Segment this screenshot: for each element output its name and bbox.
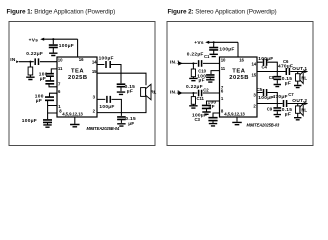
wire zobel 2 drop	[120, 113, 122, 116]
wire pin2 out2 row	[257, 103, 306, 105]
capacitor 100uF supply	[49, 45, 58, 47]
ground C11	[202, 112, 210, 114]
wire IN2 junction to resistor	[192, 93, 194, 97]
wire zobel 2 to ground	[120, 120, 122, 123]
wire pin16 supply drop	[77, 39, 79, 57]
wire pin3 stub to C5	[257, 93, 277, 104]
wire resistor2 to ground	[192, 104, 194, 105]
wire pin15 stub / out1 node	[97, 73, 146, 85]
capacitor C8 zobel	[273, 77, 281, 80]
capacitor C1 series	[199, 60, 202, 67]
wire pin11 stub to C10	[211, 71, 220, 74]
arrow OUT.1	[304, 70, 308, 73]
ground speaker2	[294, 118, 301, 120]
svg-text:15: 15	[252, 73, 257, 78]
arrow IN.2	[179, 92, 182, 95]
ground zobel2	[117, 124, 125, 126]
wire +Vs rail	[44, 38, 78, 40]
capacitor 100uF bootstrap2	[107, 96, 110, 103]
ground zobel1	[117, 92, 125, 94]
capacitor 100uF bootstrap1	[106, 61, 110, 68]
capacitor C4 bootstrap1	[264, 59, 267, 66]
svg-text:C6: C6	[283, 59, 289, 64]
speaker RL channel2	[296, 106, 300, 113]
node supply cap junction	[52, 38, 54, 40]
capacitor C3 100uF	[208, 118, 217, 121]
wire pin14 stub to C4	[257, 62, 277, 71]
capacitor C9 zobel	[273, 108, 281, 111]
svg-text:C1: C1	[204, 54, 210, 59]
resistor input2	[191, 97, 195, 105]
wire pin16 drop fig2	[237, 42, 239, 57]
wire pin1 stub to C11	[207, 101, 220, 105]
svg-text:M98TEA2025B-03: M98TEA2025B-03	[247, 122, 281, 127]
wire resistor to ground	[29, 75, 31, 77]
op-amp IC TEA2025B fig2 outline	[220, 57, 258, 117]
wire zobel 1 drop	[120, 73, 122, 83]
wire +Vs rail fig2	[209, 41, 238, 43]
svg-text:µF: µF	[128, 121, 134, 127]
capacitor 100uF pin7 chain	[45, 81, 54, 84]
arrow +Vs	[40, 38, 44, 41]
svg-text:C9: C9	[267, 107, 273, 112]
ground resistor1	[189, 78, 197, 80]
wire zobel C8 drop	[276, 72, 278, 77]
wire zobel 1 to ground	[120, 88, 122, 92]
speaker RL channel1	[296, 74, 300, 81]
svg-text:C2: C2	[203, 87, 209, 92]
svg-text:470µF: 470µF	[273, 94, 288, 100]
ground C3	[209, 124, 217, 126]
svg-text:RL: RL	[301, 75, 307, 80]
svg-text:µF: µF	[285, 81, 291, 87]
capacitor 100uF pin11	[46, 74, 54, 77]
svg-text:Figure 2: Stereo Application (: Figure 2: Stereo Application (Powerdip)	[168, 9, 277, 16]
svg-text:100µF: 100µF	[22, 118, 37, 124]
svg-text:C11: C11	[197, 96, 205, 101]
capacitor 0.22uF input series	[35, 58, 38, 65]
wire cap C2 to cap C3	[50, 77, 52, 80]
wire cap C3 to pin7 stub	[49, 85, 57, 87]
arrow IN	[16, 60, 19, 63]
svg-text:100µF: 100µF	[219, 47, 234, 53]
svg-text:100µF: 100µF	[59, 43, 74, 49]
figure 2 border frame	[167, 22, 313, 146]
svg-text:RL: RL	[301, 108, 307, 113]
svg-text:C8: C8	[269, 75, 275, 80]
capacitor C6 output1	[286, 68, 289, 75]
wire supply cap lead	[52, 39, 54, 52]
wire pin15 out1 row	[257, 71, 306, 73]
ground IC	[70, 125, 80, 127]
wire pin2 stub / out2 node	[97, 96, 146, 112]
svg-text:C5: C5	[257, 87, 263, 92]
svg-text:TEA: TEA	[71, 69, 84, 75]
wire zobel C9 to ground	[276, 111, 278, 114]
figure 1 border frame	[9, 22, 155, 146]
svg-text:C10: C10	[198, 68, 206, 73]
wire C3 to ground	[212, 121, 214, 123]
wire C10 to ground	[209, 78, 211, 79]
ground svr cap	[43, 125, 51, 127]
svg-text:15: 15	[92, 69, 97, 74]
svg-text:14: 14	[252, 61, 257, 66]
wire speaker2 drop	[297, 104, 299, 107]
ground resistor2	[189, 106, 197, 108]
ground speaker1	[294, 86, 301, 88]
svg-text:Figure 1: Bridge Application (: Figure 1: Bridge Application (Powerdip)	[7, 9, 116, 16]
svg-text:IN.2: IN.2	[170, 89, 180, 95]
wire IN to pin10	[19, 61, 57, 63]
ground supply cap	[49, 53, 57, 55]
capacitor 100uF pin6	[45, 97, 54, 100]
svg-text:IN: IN	[10, 57, 16, 63]
capacitor C11 100uF	[202, 105, 211, 108]
capacitor C5 bootstrap2	[264, 89, 267, 96]
capacitor 100uF supply fig2	[209, 48, 218, 50]
svg-text:+Vs: +Vs	[194, 40, 204, 46]
svg-text:0.22µF: 0.22µF	[186, 84, 203, 90]
wire C11 to ground	[206, 109, 208, 112]
wire IN1 to pin10	[182, 62, 220, 64]
svg-text:2025B: 2025B	[68, 75, 88, 81]
ground C8	[274, 85, 281, 87]
wire IC ground lead fig2	[236, 117, 238, 122]
svg-text:C7: C7	[288, 92, 294, 97]
svg-text:TEA: TEA	[232, 69, 245, 75]
svg-text:16: 16	[79, 57, 84, 62]
wire speaker2 to ground	[297, 113, 299, 117]
svg-text:µF: µF	[36, 98, 42, 104]
capacitor 100uF pin8 svr	[43, 120, 52, 123]
svg-text:C4: C4	[262, 65, 268, 70]
wire IN1 junction to resistor	[192, 63, 194, 69]
svg-text:+Vs: +Vs	[29, 38, 39, 44]
ground C9	[274, 115, 281, 117]
wire supply cap lead fig2	[213, 42, 215, 54]
svg-text:4,5,9,12,13: 4,5,9,12,13	[62, 112, 83, 117]
svg-text:100µF: 100µF	[258, 95, 273, 101]
svg-text:C3: C3	[195, 117, 201, 122]
wire speaker1 drop	[297, 72, 299, 74]
svg-text:µF: µF	[127, 88, 133, 94]
arrow OUT.2	[304, 102, 308, 105]
svg-text:RL: RL	[151, 90, 157, 95]
svg-text:10: 10	[58, 57, 63, 62]
svg-text:100µF: 100µF	[99, 104, 114, 110]
node supply junction fig2	[213, 41, 215, 43]
ground input resistor	[26, 77, 34, 79]
wire pin14 stub to cap C6	[97, 65, 121, 74]
svg-text:IN.1: IN.1	[170, 60, 180, 66]
svg-text:2025B: 2025B	[229, 75, 249, 81]
resistor input bias	[28, 67, 33, 75]
arrow IN.1	[179, 62, 182, 65]
svg-text:100µF: 100µF	[99, 55, 114, 61]
wire pin8 stub to C3	[213, 113, 220, 117]
svg-text:0.22µF: 0.22µF	[187, 51, 204, 57]
wire zobel C8 to ground	[276, 80, 278, 84]
svg-text:0.22µF: 0.22µF	[26, 51, 43, 57]
speaker RL bridge	[141, 88, 146, 97]
ground IC fig2	[232, 122, 242, 124]
svg-text:16: 16	[239, 58, 244, 63]
ground C10	[206, 80, 214, 82]
node IN2 junction	[192, 92, 194, 94]
capacitor C7 output2	[284, 100, 287, 107]
resistor input1	[191, 69, 195, 77]
wire speaker1 to ground	[297, 81, 299, 85]
wire pin11 stub to cap C2	[51, 69, 57, 73]
capacitor C10 100uF	[206, 75, 214, 77]
svg-text:10: 10	[221, 58, 226, 63]
capacitor C2 series	[199, 90, 202, 97]
capacitor 0.15uF zobel1	[117, 84, 126, 87]
svg-text:M98TEA2025B-04: M98TEA2025B-04	[87, 126, 121, 131]
wire resistor1 to ground	[192, 77, 194, 78]
svg-text:11: 11	[221, 66, 226, 71]
svg-text:µF: µF	[40, 76, 46, 82]
svg-text:µF: µF	[199, 77, 205, 83]
wire IN2 to pin6	[182, 92, 220, 94]
svg-text:14: 14	[92, 59, 97, 64]
wire pin3 stub to cap C7	[97, 99, 121, 112]
arrow +Vs fig2	[205, 41, 209, 44]
wire cap C4 down to pin1 and pin8 stubs	[48, 101, 57, 119]
wire zobel C9 drop	[276, 104, 278, 108]
svg-text:4,5,9,12,13: 4,5,9,12,13	[224, 112, 245, 117]
wire cap C5 to ground	[47, 123, 49, 125]
ground supply cap fig2	[210, 54, 218, 56]
op-amp IC TEA2025B outline	[57, 57, 97, 117]
capacitor 0.15uF zobel2	[117, 117, 126, 120]
node input junction	[29, 61, 31, 63]
wire IC ground lead	[74, 117, 76, 124]
node IN1 junction	[192, 62, 194, 64]
wire pin6 stub to cap C4	[50, 93, 58, 96]
wire IN junction to resistor	[29, 62, 31, 67]
svg-text:11: 11	[58, 66, 63, 71]
svg-text:µF: µF	[285, 112, 291, 118]
